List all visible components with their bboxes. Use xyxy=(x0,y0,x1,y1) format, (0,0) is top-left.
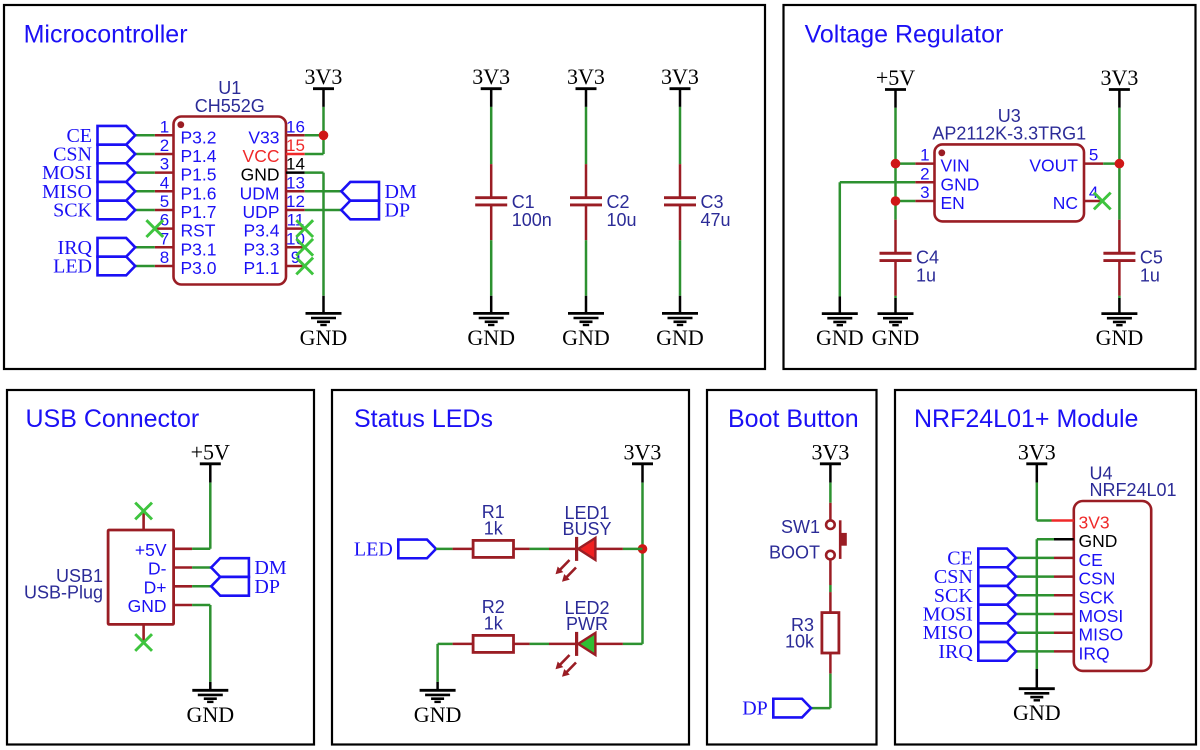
net label flag LED (LED into R1) xyxy=(354,538,436,560)
power symbol 3V3 (Boot pull-up supply) xyxy=(811,440,849,483)
net label flag DM (DM from USB) xyxy=(211,557,287,579)
svg-text:SW1: SW1 xyxy=(781,517,820,537)
svg-text:GND: GND xyxy=(186,702,234,727)
svg-text:BOOT: BOOT xyxy=(769,543,820,563)
svg-text:UDP: UDP xyxy=(243,202,280,222)
svg-text:NRF24L01: NRF24L01 xyxy=(1090,480,1177,500)
module U4 pin stub CE xyxy=(1054,557,1074,560)
ic U1 pin 1 stub xyxy=(155,134,174,137)
svg-text:Microcontroller: Microcontroller xyxy=(24,21,188,49)
svg-text:D+: D+ xyxy=(144,577,167,597)
module U4 pin stub MISO xyxy=(1054,631,1074,634)
svg-text:4: 4 xyxy=(160,173,169,192)
svg-text:BUSY: BUSY xyxy=(562,519,611,539)
wire R2 GND down xyxy=(436,644,439,682)
wire MISO to U1 pin 4 xyxy=(135,190,155,193)
svg-text:3V3: 3V3 xyxy=(811,440,849,465)
ic U1 pin 7 stub xyxy=(155,246,174,249)
wire 3V3 to SW1 xyxy=(829,483,832,503)
wire U4 GND down xyxy=(1036,539,1039,669)
svg-text:GND: GND xyxy=(1013,700,1061,725)
wire IRQ to U1 pin 7 xyxy=(135,246,155,249)
ic U1 pin 8 stub xyxy=(155,265,174,268)
led LED2 PWR xyxy=(549,598,623,677)
ic U1 pin 11 stub xyxy=(286,227,305,230)
connector USB1 shield pin top xyxy=(142,511,145,530)
wire 3V3 down xyxy=(1036,483,1039,521)
svg-text:D-: D- xyxy=(148,559,167,579)
svg-text:P1.1: P1.1 xyxy=(244,258,280,278)
wire +5V down to VIN xyxy=(894,108,897,164)
svg-text:3V3: 3V3 xyxy=(1079,513,1110,533)
connector USB1 pin stub D+ xyxy=(174,585,193,588)
ground symbol (C4 GND) xyxy=(872,298,920,350)
svg-text:10k: 10k xyxy=(785,631,815,651)
svg-text:SCK: SCK xyxy=(1079,587,1115,607)
net label flag IRQ (IRQ into U1) xyxy=(58,237,136,259)
power symbol 3V3 (NRF supply) xyxy=(1018,440,1056,483)
power symbol 3V3 (U3 output) xyxy=(1100,65,1138,108)
svg-text:3V3: 3V3 xyxy=(624,440,662,465)
svg-text:EN: EN xyxy=(941,193,965,213)
svg-text:USB-Plug: USB-Plug xyxy=(24,583,103,603)
svg-text:USB Connector: USB Connector xyxy=(26,405,200,433)
wire GND net vertical xyxy=(322,173,325,296)
svg-text:C5: C5 xyxy=(1140,247,1163,267)
net label flag CE (CE into U1) xyxy=(66,125,135,147)
svg-text:+5V: +5V xyxy=(191,440,230,465)
wire 3V3 to C3 xyxy=(679,107,682,164)
module U4 pin stub MOSI xyxy=(1054,613,1074,616)
ground symbol (R2 GND) xyxy=(414,682,462,727)
net label flag IRQ (IRQ into U4) xyxy=(938,641,1016,663)
connector USB1 pin stub D- xyxy=(174,566,193,569)
svg-text:C3: C3 xyxy=(701,192,724,212)
net label flag MOSI (MOSI into U1) xyxy=(42,162,135,184)
svg-text:12: 12 xyxy=(286,192,305,211)
svg-text:47u: 47u xyxy=(701,210,731,230)
svg-text:3V3: 3V3 xyxy=(1018,440,1056,465)
svg-text:100n: 100n xyxy=(512,210,552,230)
svg-text:MISO: MISO xyxy=(1079,625,1124,645)
ic U1 pin 6 stub xyxy=(155,227,174,230)
section box USB Connector xyxy=(7,390,314,745)
junction 3V3 at VOUT xyxy=(1115,159,1125,169)
wire pin15 to 3V3 net xyxy=(305,153,324,156)
ic U1 pin 2 stub xyxy=(155,153,174,156)
wire 3V3 down to VOUT xyxy=(1118,108,1121,164)
ground symbol (C1 GND) xyxy=(467,296,515,350)
svg-text:15: 15 xyxy=(286,136,305,155)
svg-text:GND: GND xyxy=(562,325,610,350)
net label flag CSN (CSN into U1) xyxy=(53,144,135,166)
wire U1 pin12 to DP flag xyxy=(305,209,342,212)
svg-text:C2: C2 xyxy=(607,192,630,212)
net label flag DP (DP from USB) xyxy=(211,576,280,598)
svg-text:1: 1 xyxy=(920,146,929,165)
wire LED1 to 3V3 net xyxy=(623,548,643,551)
svg-text:PWR: PWR xyxy=(566,614,608,634)
svg-text:9: 9 xyxy=(291,248,300,267)
section box NRF24L01+ Module xyxy=(895,390,1196,745)
junction +5V at EN xyxy=(891,196,901,206)
ic U1 pin 3 stub xyxy=(155,171,174,174)
wire C5 to GND xyxy=(1118,296,1121,298)
module U4 pin stub CSN xyxy=(1054,575,1074,578)
wire 3V3 down to LED1 row xyxy=(641,483,644,549)
switch SW1 BOOT xyxy=(769,503,847,585)
led LED1 BUSY xyxy=(549,503,623,582)
ic U3 pin 5 stub xyxy=(1084,162,1103,165)
svg-text:GND: GND xyxy=(467,325,515,350)
ground symbol (USB GND) xyxy=(186,682,234,727)
svg-text:GND: GND xyxy=(241,165,280,185)
svg-text:LED: LED xyxy=(354,538,393,560)
wire R3 to DP flag xyxy=(811,707,830,710)
section box Boot Button xyxy=(707,390,877,745)
svg-text:IRQ: IRQ xyxy=(938,641,973,663)
power symbol 3V3 (C1 supply) xyxy=(472,64,510,107)
svg-text:7: 7 xyxy=(160,229,169,248)
svg-text:DP: DP xyxy=(742,698,768,720)
svg-text:14: 14 xyxy=(286,155,305,174)
svg-text:GND: GND xyxy=(1096,325,1144,350)
power symbol +5V (U3 input) xyxy=(876,65,915,108)
capacitor C2 10u xyxy=(570,164,637,240)
svg-text:P3.4: P3.4 xyxy=(244,221,280,241)
ic U3 pin-1 marker dot xyxy=(938,149,945,156)
svg-text:1k: 1k xyxy=(484,518,504,538)
svg-text:NRF24L01+ Module: NRF24L01+ Module xyxy=(914,405,1138,433)
power symbol 3V3 (C2 supply) xyxy=(567,64,605,107)
svg-text:6: 6 xyxy=(160,211,169,230)
connector USB1 pin stub +5V xyxy=(174,547,193,550)
capacitor C4 1u xyxy=(880,220,940,296)
wire MOSI flag to U4 xyxy=(1016,613,1054,616)
ground symbol (C3 GND) xyxy=(656,296,704,350)
wire VIN to +5V net xyxy=(896,162,916,165)
wire LED2 to 3V3 net xyxy=(623,643,643,646)
ground symbol (U3 GND) xyxy=(816,297,864,351)
wire LED to U1 pin 8 xyxy=(135,265,155,268)
net label flag SCK (SCK into U4) xyxy=(934,585,1016,607)
wire 3V3 down to pin15 row xyxy=(322,135,325,154)
svg-text:3V3: 3V3 xyxy=(567,64,605,89)
svg-text:VCC: VCC xyxy=(243,146,280,166)
ic U1 pin 12 stub xyxy=(286,209,305,212)
ground symbol (U4 GND) xyxy=(1013,669,1061,725)
svg-text:P3.0: P3.0 xyxy=(181,258,217,278)
ic U1 pin 5 stub xyxy=(155,209,174,212)
no-connect flag (U1 pin 11) xyxy=(296,220,313,237)
wire C3 to GND xyxy=(679,240,682,296)
section box Microcontroller xyxy=(4,5,765,369)
wire R2 left corner xyxy=(438,643,453,646)
wire R2 to LED2 xyxy=(530,643,550,646)
wire C1 to GND xyxy=(490,240,493,296)
svg-text:VOUT: VOUT xyxy=(1029,156,1078,176)
svg-text:P3.1: P3.1 xyxy=(181,239,217,259)
svg-text:DP: DP xyxy=(385,200,411,222)
wire USB GND to corner xyxy=(192,604,210,607)
wire SCK flag to U4 xyxy=(1016,594,1054,597)
capacitor C1 100n xyxy=(475,164,552,240)
wire 3V3 to C2 xyxy=(585,107,588,164)
svg-text:U1: U1 xyxy=(218,78,241,98)
ic U1 pin 16 stub xyxy=(286,134,305,137)
svg-text:3: 3 xyxy=(920,183,929,202)
svg-text:GND: GND xyxy=(816,325,864,350)
junction 3V3 at pin16 xyxy=(319,131,329,141)
wire pin14 to GND net corner xyxy=(305,171,324,174)
connector USB1 pin stub GND xyxy=(174,604,193,607)
net label flag CE (CE into U4) xyxy=(947,547,1016,569)
svg-text:2: 2 xyxy=(920,164,929,183)
ic U1 pin-1 marker dot xyxy=(177,121,184,128)
svg-text:5: 5 xyxy=(160,192,169,211)
wire 3V3 to U4 3V3 pin xyxy=(1037,519,1052,522)
ic U3 pin 3 stub xyxy=(915,200,934,203)
svg-text:P1.7: P1.7 xyxy=(181,202,217,222)
power symbol 3V3 (C3 supply) xyxy=(661,64,699,107)
wire D+ to DP flag xyxy=(192,585,211,588)
module U4 body xyxy=(1074,501,1151,671)
wire CSN to U1 pin 2 xyxy=(135,153,155,156)
svg-text:4: 4 xyxy=(1089,183,1098,202)
svg-text:SCK: SCK xyxy=(53,200,92,222)
svg-text:3: 3 xyxy=(160,155,169,174)
wire CE flag to U4 xyxy=(1016,557,1054,560)
ic U1 pin 13 stub xyxy=(286,190,305,193)
ic U1 pin 10 stub xyxy=(286,246,305,249)
ground symbol (C5 GND) xyxy=(1096,298,1144,350)
wire 3V3 stem to junction xyxy=(322,107,325,135)
connector USB1 body xyxy=(108,530,174,624)
wire SW1 to R3 xyxy=(829,585,832,592)
module U4 pin stub GND xyxy=(1054,538,1074,541)
ic U3 pin 1 stub xyxy=(915,162,934,165)
net label flag DP (DP from U1) xyxy=(341,200,410,222)
svg-text:3V3: 3V3 xyxy=(305,64,343,89)
svg-text:P1.4: P1.4 xyxy=(181,146,217,166)
ground symbol (C2 GND) xyxy=(562,296,610,350)
svg-text:RST: RST xyxy=(181,221,216,241)
svg-text:16: 16 xyxy=(286,117,305,136)
power symbol 3V3 (LED supply) xyxy=(624,440,662,483)
module U4 pin stub IRQ xyxy=(1054,650,1074,653)
wire U3 GND net down xyxy=(839,182,842,296)
wire MISO flag to U4 xyxy=(1016,631,1054,634)
svg-text:C4: C4 xyxy=(916,247,939,267)
svg-text:1: 1 xyxy=(160,117,169,136)
svg-text:P1.5: P1.5 xyxy=(181,165,217,185)
ic U3 pin 4 stub xyxy=(1084,200,1103,203)
svg-text:1k: 1k xyxy=(484,613,504,633)
wire 3V3 to C1 xyxy=(490,107,493,164)
no-connect flag (U1 RST pin 6) xyxy=(146,220,163,237)
svg-text:Boot Button: Boot Button xyxy=(728,405,859,433)
module U4 pin stub 3V3 xyxy=(1052,519,1074,522)
wire CSN flag to U4 xyxy=(1016,575,1054,578)
wire 3V3 net down to C5 xyxy=(1118,164,1121,220)
net label flag LED (LED into U1) xyxy=(53,256,135,278)
wire +5V net down to EN row xyxy=(894,164,897,201)
svg-text:GND: GND xyxy=(656,325,704,350)
svg-text:VIN: VIN xyxy=(941,156,970,176)
wire U1 pin13 to DM flag xyxy=(305,190,342,193)
wire 3V3 net down to LED2 row xyxy=(641,549,644,644)
svg-text:GND: GND xyxy=(872,325,920,350)
net label flag DM (DM from U1) xyxy=(341,181,417,203)
ic U1 pin 14 stub xyxy=(286,171,305,174)
wire D- to DM flag xyxy=(192,566,211,569)
resistor R2 1k xyxy=(453,597,530,653)
wire C4 to GND xyxy=(894,296,897,298)
net label flag DP (DP into R3) xyxy=(742,698,811,720)
ic U1 pin 4 stub xyxy=(155,190,174,193)
ic U1 body xyxy=(174,117,287,285)
wire +5V net down to C4 xyxy=(894,201,897,220)
wire SCK to U1 pin 5 xyxy=(135,209,155,212)
ground symbol (U1 GND) xyxy=(300,296,348,350)
svg-text:IRQ: IRQ xyxy=(1079,643,1110,663)
junction 3V3 at LED1 xyxy=(638,544,648,554)
net label flag CSN (CSN into U4) xyxy=(934,566,1016,588)
svg-text:DP: DP xyxy=(254,576,280,598)
no-connect flag (U1 pin 9) xyxy=(296,258,313,275)
net label flag MISO (MISO into U1) xyxy=(42,181,135,203)
svg-text:+5V: +5V xyxy=(876,65,915,90)
no-connect flag (USB1 shield bottom) xyxy=(135,634,152,651)
svg-text:5: 5 xyxy=(1089,146,1098,165)
module U4 pin stub SCK xyxy=(1054,594,1074,597)
svg-text:13: 13 xyxy=(286,173,305,192)
wire C2 to GND xyxy=(585,240,588,296)
ic U3 body xyxy=(935,144,1085,221)
svg-text:GND: GND xyxy=(300,325,348,350)
svg-text:CH552G: CH552G xyxy=(195,96,265,116)
no-connect flag (USB1 shield top) xyxy=(135,503,152,520)
connector USB1 shield pin bottom xyxy=(142,624,145,642)
capacitor C5 1u xyxy=(1103,220,1163,296)
net label flag SCK (SCK into U1) xyxy=(53,200,135,222)
svg-text:3V3: 3V3 xyxy=(1100,65,1138,90)
svg-text:MOSI: MOSI xyxy=(1079,606,1124,626)
svg-text:P3.2: P3.2 xyxy=(181,127,217,147)
svg-text:P3.3: P3.3 xyxy=(244,239,280,259)
svg-text:2: 2 xyxy=(160,136,169,155)
wire VOUT to 3V3 net xyxy=(1103,162,1119,165)
resistor R1 1k xyxy=(453,502,530,558)
svg-text:1u: 1u xyxy=(916,265,936,285)
wire USB GND down xyxy=(209,605,212,682)
svg-text:C1: C1 xyxy=(512,192,535,212)
power symbol 3V3 (U1 supply) xyxy=(305,64,343,107)
wire IRQ flag to U4 xyxy=(1016,650,1054,653)
svg-text:AP2112K-3.3TRG1: AP2112K-3.3TRG1 xyxy=(932,124,1086,144)
ic U3 pin 2 stub xyxy=(915,181,934,184)
svg-text:V33: V33 xyxy=(248,127,279,147)
svg-text:8: 8 xyxy=(160,248,169,267)
section box Status LEDs xyxy=(332,390,689,745)
svg-text:GND: GND xyxy=(414,702,462,727)
wire R3 down xyxy=(829,674,832,709)
svg-text:3V3: 3V3 xyxy=(661,64,699,89)
net label flag MOSI (MOSI into U4) xyxy=(923,604,1016,626)
section box Voltage Regulator xyxy=(784,5,1196,369)
ic U1 pin 15 stub xyxy=(286,153,305,156)
junction +5V at VIN xyxy=(891,159,901,169)
wire pin16 to 3V3 net xyxy=(305,134,324,137)
svg-text:UDM: UDM xyxy=(240,183,280,203)
no-connect flag (U3 NC pin 4) xyxy=(1094,193,1111,210)
svg-text:GND: GND xyxy=(941,174,980,194)
net label flag MISO (MISO into U4) xyxy=(923,622,1016,644)
power symbol +5V (USB VBUS) xyxy=(191,440,230,483)
ic U1 pin 9 stub xyxy=(286,265,305,268)
no-connect flag (U1 pin 10) xyxy=(296,239,313,256)
svg-text:GND: GND xyxy=(128,596,167,616)
wire VBUS to +5V net xyxy=(192,548,210,551)
svg-text:P1.6: P1.6 xyxy=(181,183,217,203)
wire CE to U1 pin 1 xyxy=(135,134,155,137)
svg-text:Voltage Regulator: Voltage Regulator xyxy=(805,21,1004,49)
resistor R3 10k xyxy=(785,592,839,673)
svg-text:LED: LED xyxy=(53,256,92,278)
svg-text:10u: 10u xyxy=(607,210,637,230)
svg-text:1u: 1u xyxy=(1140,265,1160,285)
wire +5V down to VBUS row xyxy=(209,483,212,549)
wire EN to +5V net xyxy=(896,200,916,203)
capacitor C3 47u xyxy=(664,164,731,240)
wire LED flag to R1 xyxy=(436,548,453,551)
svg-text:+5V: +5V xyxy=(135,540,167,560)
wire U4 GND pin left xyxy=(1037,538,1054,541)
wire R1 to LED1 xyxy=(530,548,550,551)
wire U3 GND pin to left xyxy=(840,181,916,184)
svg-text:NC: NC xyxy=(1053,193,1078,213)
svg-text:CE: CE xyxy=(1079,550,1103,570)
svg-text:Status LEDs: Status LEDs xyxy=(354,405,493,433)
svg-text:3V3: 3V3 xyxy=(472,64,510,89)
wire MOSI to U1 pin 3 xyxy=(135,171,155,174)
svg-text:GND: GND xyxy=(1079,531,1118,551)
svg-text:CSN: CSN xyxy=(1079,569,1116,589)
